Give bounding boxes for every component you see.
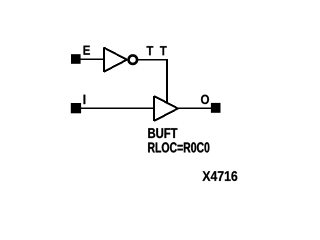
wire buffer output to O pad (178, 107, 211, 109)
tri-state buffer BUFT triangle (154, 96, 178, 121)
input pin E (square pad) (71, 54, 81, 64)
wire bubble to corner (net T) (138, 59, 168, 61)
attribute label RLOC=R0C0 (148, 142, 209, 152)
pin label I (84, 95, 86, 104)
inverter output bubble (129, 55, 138, 64)
wire E pad to inverter input (81, 58, 105, 60)
pin label O (201, 95, 209, 105)
output pin O (square pad) (211, 103, 221, 113)
figure number X4716 (202, 171, 237, 181)
input pin I (square pad) (71, 103, 81, 113)
pin label E (84, 46, 90, 55)
net label T (first) (147, 46, 154, 55)
component name label BUFT (148, 128, 177, 138)
wire I pad to buffer input (81, 107, 155, 109)
wire vertical net T down to buffer enable (166, 60, 168, 102)
inverter INV triangle (104, 48, 127, 72)
net label T (second) (160, 46, 167, 55)
